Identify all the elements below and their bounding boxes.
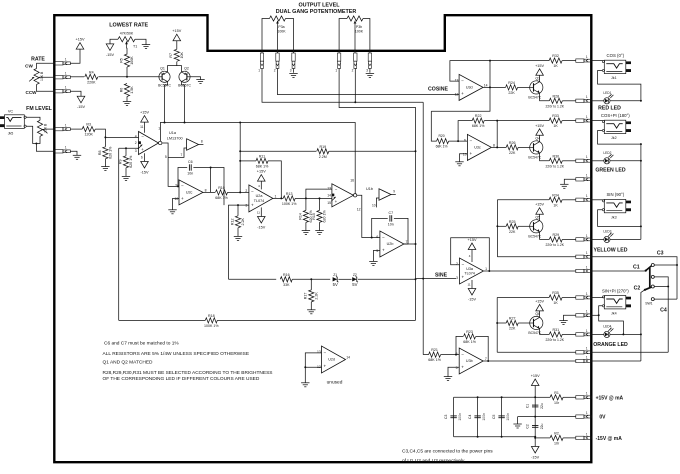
connector COS out bbox=[576, 55, 592, 62]
wire R9 bottom to ground bbox=[125, 168, 127, 177]
connector SIN out bbox=[576, 194, 592, 201]
svg-text:FM LEVEL: FM LEVEL bbox=[26, 106, 52, 112]
wire C6 right to output bbox=[193, 168, 210, 193]
svg-text:10r: 10r bbox=[554, 401, 560, 405]
op-amp U3a TL074 bbox=[456, 258, 487, 284]
resistor R26 22K bbox=[506, 141, 518, 155]
svg-text:+: + bbox=[461, 91, 464, 96]
wire P3b left to conn 4 bbox=[339, 19, 347, 54]
svg-text:−: − bbox=[251, 189, 254, 194]
resistor R4 220K bbox=[85, 70, 98, 84]
wire R21 to pin6 node bbox=[441, 354, 460, 356]
junction U3c output bbox=[496, 146, 498, 148]
svg-text:1: 1 bbox=[586, 155, 588, 159]
svg-text:R15: R15 bbox=[312, 213, 316, 220]
svg-text:SIN+PI (270°): SIN+PI (270°) bbox=[602, 288, 629, 293]
svg-text:2: 2 bbox=[274, 68, 276, 72]
resistor R29 220r-1.2K bbox=[549, 233, 562, 242]
wire U3b pin5 to ground bbox=[448, 367, 459, 376]
wire R18 line right bbox=[217, 319, 415, 321]
svg-text:1: 1 bbox=[258, 68, 260, 72]
resistor R17 2.2K bbox=[304, 290, 319, 302]
junction R19 right at sine bus bbox=[415, 150, 417, 152]
jack Jk4 SIN+PI (270deg) bbox=[602, 288, 631, 315]
wire R31 to connector bbox=[562, 333, 576, 335]
svg-text:TL074: TL074 bbox=[254, 199, 264, 203]
wire Q1 collector down bbox=[165, 82, 168, 123]
svg-text:+15V: +15V bbox=[535, 299, 544, 303]
svg-text:R7: R7 bbox=[169, 53, 173, 58]
junction R11 left bbox=[239, 160, 241, 162]
svg-text:Jk2: Jk2 bbox=[611, 136, 617, 140]
wire connector5 to ground bbox=[70, 151, 77, 155]
junction R22 left bbox=[457, 140, 459, 142]
wire R22 right to fb node bbox=[484, 120, 497, 122]
wire +15V to R1 bbox=[535, 396, 550, 398]
svg-text:CCW: CCW bbox=[26, 90, 38, 95]
resistor R1 10r bbox=[550, 391, 563, 405]
transistor Q1 BC557C bbox=[158, 67, 171, 88]
ground below R9 bbox=[122, 176, 130, 180]
svg-text:C6: C6 bbox=[188, 160, 193, 164]
junction LED4 line on C2 drop bbox=[640, 333, 642, 335]
svg-text:YELLOW LED: YELLOW LED bbox=[593, 247, 627, 253]
+15V supply arrow (U2a) bbox=[257, 170, 266, 182]
junction wiper line bbox=[354, 101, 356, 103]
svg-text:U3c: U3c bbox=[474, 145, 481, 149]
wire C7 feedback left bbox=[372, 218, 388, 237]
svg-text:LED3: LED3 bbox=[603, 230, 611, 234]
ground at U2c pin10 bbox=[168, 210, 176, 214]
wire U2a V- stub bbox=[260, 207, 262, 216]
wire U2b pin5 to ground bbox=[373, 251, 380, 262]
svg-text:-15V: -15V bbox=[257, 225, 265, 229]
resistor R31 220r-1.2K bbox=[549, 328, 562, 337]
wire R22 left leg bbox=[458, 121, 472, 142]
connector GREEN LED bbox=[576, 155, 592, 162]
wire U1a V- stub bbox=[144, 153, 146, 161]
resistor R9 620 1% bbox=[118, 155, 133, 168]
wire C3 outside bbox=[591, 257, 677, 299]
resistor R21 68K 1% bbox=[428, 348, 441, 362]
wire jack tip to P2 top bbox=[26, 117, 40, 120]
wire T1 left to -15V bbox=[110, 39, 118, 43]
svg-text:100K 1%: 100K 1% bbox=[204, 324, 219, 328]
wire 0V line bbox=[518, 416, 576, 418]
svg-text:Q2: Q2 bbox=[184, 67, 189, 71]
svg-text:U3b: U3b bbox=[466, 359, 473, 363]
wire R13 to divider to U1b bbox=[295, 197, 332, 199]
wire rail to U2a bus bbox=[239, 123, 241, 193]
zener diode Z2 5V bbox=[352, 273, 358, 287]
+15V supply arrow (Q6) bbox=[535, 299, 544, 311]
wire cos to R32 bbox=[490, 60, 549, 62]
connector RATE CCW (pin 1) bbox=[55, 86, 71, 93]
svg-text:1: 1 bbox=[65, 86, 67, 90]
wire R28 to connector bbox=[562, 100, 576, 102]
resistor R24 22K bbox=[506, 81, 518, 95]
connector C4 bbox=[576, 347, 592, 354]
wire R8 bottom to ground bbox=[104, 159, 106, 167]
svg-text:−: − bbox=[461, 79, 464, 84]
svg-text:VC: VC bbox=[8, 110, 14, 114]
svg-text:−: − bbox=[461, 352, 464, 357]
svg-text:11: 11 bbox=[140, 125, 144, 129]
wire U2a pin3 line bbox=[229, 205, 249, 279]
wire P3b conn5 wiper down bbox=[354, 68, 356, 102]
junction SW1 pole 1 bbox=[645, 270, 647, 272]
svg-text:R13: R13 bbox=[286, 192, 293, 196]
wire decoupling top rail bbox=[454, 396, 536, 398]
svg-text:14: 14 bbox=[484, 83, 488, 87]
svg-text:R22: R22 bbox=[475, 114, 482, 118]
wire P3a conn1 down bbox=[262, 68, 423, 102]
svg-text:R28: R28 bbox=[553, 94, 560, 98]
svg-text:R18: R18 bbox=[208, 314, 215, 318]
junction U2a output/R11 bbox=[280, 197, 282, 199]
svg-text:7: 7 bbox=[485, 357, 487, 361]
connector RED LED bbox=[576, 95, 592, 102]
wire Q3 emitter to R28 bbox=[540, 93, 550, 101]
svg-text:-15V: -15V bbox=[77, 105, 85, 109]
svg-text:220r to 1.2K: 220r to 1.2K bbox=[546, 338, 565, 342]
potentiometer P1 RATE 10K bbox=[29, 68, 44, 84]
svg-text:Jk5: Jk5 bbox=[8, 131, 14, 135]
svg-text:1: 1 bbox=[586, 411, 588, 415]
svg-text:U3a: U3a bbox=[466, 267, 474, 271]
svg-text:R4: R4 bbox=[89, 70, 94, 74]
junction U2c pin9 node bbox=[177, 185, 179, 187]
wire U2a V+ stub bbox=[260, 181, 262, 189]
svg-text:3: 3 bbox=[456, 276, 458, 280]
ground below U2d bbox=[301, 383, 309, 387]
junction Q2 collector on rail bbox=[184, 122, 186, 124]
wire R19 line right bbox=[329, 150, 416, 152]
connector U3b out bbox=[576, 355, 592, 362]
svg-text:620 1%: 620 1% bbox=[109, 146, 113, 159]
svg-text:1K: 1K bbox=[553, 203, 558, 207]
wire Q6 collector to +15V bbox=[539, 311, 541, 317]
resistor R6 1.5K bbox=[119, 84, 134, 97]
svg-text:SIN (90°): SIN (90°) bbox=[606, 192, 624, 197]
svg-text:LED4: LED4 bbox=[603, 325, 611, 329]
wire plus input line U1a bbox=[119, 147, 139, 149]
op-amp U3b bbox=[456, 348, 487, 374]
svg-text:R26: R26 bbox=[509, 141, 516, 145]
junction U3d output bbox=[489, 86, 491, 88]
wire connector3 to -15V bbox=[70, 91, 81, 96]
wire P3a left to conn 1 bbox=[262, 19, 270, 54]
resistor R30 220r-1.2K bbox=[549, 154, 562, 163]
wire R24 to Q3 base bbox=[518, 86, 530, 88]
svg-text:R21: R21 bbox=[431, 348, 438, 352]
wire U2a output to R13 bbox=[273, 197, 283, 199]
op-amp U3c bbox=[463, 134, 495, 160]
wire R5 to node bbox=[126, 67, 128, 77]
ground below R12 bbox=[234, 236, 242, 240]
junction bus bottom bbox=[239, 191, 241, 193]
op-amp U2c bbox=[175, 180, 207, 205]
junction LED2 bus bbox=[640, 160, 642, 162]
svg-text:U2c: U2c bbox=[186, 190, 193, 194]
wire Q2 base to ground bbox=[190, 77, 200, 80]
wire Q5 emitter to R29 bbox=[540, 232, 550, 239]
svg-text:+15V: +15V bbox=[531, 374, 540, 378]
junction -15V node bbox=[534, 437, 536, 439]
svg-text:8: 8 bbox=[493, 143, 495, 147]
wire Q4 emitter to R30 bbox=[540, 153, 550, 161]
wire Q2 collector down bbox=[182, 82, 185, 123]
resistor R15 620 1% bbox=[312, 210, 327, 223]
connector RATE wiper (pin 1) bbox=[55, 72, 71, 79]
svg-text:1: 1 bbox=[158, 127, 160, 131]
+15V supply arrow (Q4) bbox=[535, 124, 544, 136]
svg-text:13: 13 bbox=[455, 78, 459, 82]
svg-text:P3a: P3a bbox=[278, 25, 284, 29]
svg-text:+15V: +15V bbox=[140, 111, 149, 115]
+15V supply arrow (Q3) bbox=[535, 64, 544, 76]
wire U2c pin10 to ground bbox=[173, 199, 180, 210]
junction C6/output bbox=[210, 167, 212, 169]
svg-text:R5: R5 bbox=[119, 58, 123, 63]
junction jack4 sleeve on LED4 wire bbox=[622, 333, 624, 335]
junction wiper bus at sine wire bbox=[422, 278, 424, 280]
svg-text:6: 6 bbox=[456, 352, 458, 356]
wire U1a output down bbox=[162, 143, 179, 186]
wire LED1 to bus bbox=[610, 100, 641, 102]
wire throw1a to C3 bus bbox=[654, 264, 677, 266]
wire P1 top to connector 1 bbox=[37, 63, 55, 68]
svg-text:+15V: +15V bbox=[535, 203, 544, 207]
svg-text:220r to 1.2K: 220r to 1.2K bbox=[546, 164, 565, 168]
wire C4 outside bbox=[591, 351, 668, 353]
op-amp U1a (OTA) bbox=[135, 132, 162, 155]
svg-text:R16: R16 bbox=[283, 273, 290, 277]
capacitor C2 22u bbox=[526, 423, 544, 429]
wire R17 bottom to ground bbox=[310, 302, 312, 310]
svg-text:R24: R24 bbox=[508, 81, 515, 85]
zener diode Z1 5V bbox=[333, 273, 339, 287]
junction R27 left bbox=[496, 322, 498, 324]
wire U3c output bbox=[492, 146, 507, 148]
ground power bbox=[513, 424, 521, 428]
wire jack sleeve to P2 bottom junction bbox=[26, 126, 40, 143]
svg-text:14: 14 bbox=[346, 356, 350, 360]
wire sine node to U3a bbox=[416, 278, 457, 280]
svg-text:unused: unused bbox=[327, 380, 343, 386]
+15V supply arrow (U1a) bbox=[140, 111, 149, 123]
wire wiper bus to R21 bbox=[423, 354, 428, 356]
junction U3b output bbox=[487, 360, 489, 362]
junction R22 right bbox=[496, 120, 498, 122]
svg-text:220r to 1.2K: 220r to 1.2K bbox=[546, 243, 565, 247]
junction R19 line at bus bbox=[239, 150, 241, 152]
svg-text:Z2: Z2 bbox=[353, 273, 357, 277]
svg-text:22K: 22K bbox=[509, 230, 516, 234]
transistor Q4 BC547C bbox=[528, 136, 543, 159]
op-amp U3d bbox=[455, 74, 488, 100]
svg-text:RATE: RATE bbox=[31, 56, 45, 62]
svg-text:U1a: U1a bbox=[169, 131, 177, 135]
svg-text:R28,R29,R30,R31 MUST BE SELECT: R28,R29,R30,R31 MUST BE SELECTED ACCORDI… bbox=[103, 370, 273, 376]
svg-text:12: 12 bbox=[357, 208, 361, 212]
wire P3b conn4 down to sine bus bbox=[339, 68, 415, 151]
svg-text:4: 4 bbox=[135, 134, 137, 138]
svg-text:R3: R3 bbox=[86, 123, 91, 127]
svg-text:R20: R20 bbox=[438, 134, 444, 138]
svg-text:R19: R19 bbox=[320, 145, 327, 149]
capacitor C6 10n bbox=[187, 160, 193, 176]
svg-text:R11: R11 bbox=[259, 155, 265, 159]
svg-text:-15V: -15V bbox=[531, 455, 539, 459]
wire U1a V+ stub bbox=[144, 122, 146, 133]
svg-text:R25: R25 bbox=[509, 220, 516, 224]
-15V supply arrow (U1a) bbox=[140, 162, 148, 175]
wire LED3 to bus bbox=[610, 238, 641, 240]
junction U3a output fb bbox=[488, 270, 490, 272]
wire R16 to R17 node bbox=[292, 278, 330, 280]
resistor R10 68K 1% bbox=[215, 186, 228, 200]
ground below R17 bbox=[307, 310, 315, 314]
svg-text:3: 3 bbox=[366, 68, 368, 72]
wire U3d feedback bbox=[431, 61, 490, 112]
junction U2b out on sine bus bbox=[415, 243, 417, 245]
svg-text:OUTPUT LEVEL: OUTPUT LEVEL bbox=[298, 3, 340, 9]
junction U2d tie bbox=[304, 366, 306, 368]
svg-text:5: 5 bbox=[165, 155, 167, 159]
svg-text:+: + bbox=[324, 364, 327, 369]
svg-text:C4: C4 bbox=[660, 308, 667, 314]
svg-text:10K B: 10K B bbox=[43, 123, 47, 133]
wire R8 top stub bbox=[104, 137, 106, 146]
wire C3cap branch bbox=[453, 397, 455, 437]
junction R8 top bbox=[104, 136, 106, 138]
wire R17 stub bbox=[310, 279, 312, 290]
wire jack1 sleeve loop bbox=[598, 71, 641, 101]
svg-text:16: 16 bbox=[350, 179, 354, 183]
wire throw2a to C4 vertical bbox=[654, 286, 668, 288]
svg-text:+15V: +15V bbox=[172, 29, 181, 33]
resistor R8 620 1% bbox=[98, 146, 113, 159]
connector -15V bbox=[576, 432, 592, 439]
svg-text:33K: 33K bbox=[283, 283, 290, 287]
wire U2b output to sine bus bbox=[404, 243, 416, 245]
wire U3a feedback bbox=[451, 238, 490, 271]
wire U2d tie to ground bbox=[304, 367, 306, 383]
svg-text:C3,C4,C5 are connected to the: C3,C4,C5 are connected to the power pins bbox=[402, 449, 493, 455]
ground below R8 bbox=[101, 167, 109, 171]
svg-text:2.2K: 2.2K bbox=[241, 218, 245, 226]
wire conn to jack2 bbox=[591, 120, 603, 122]
svg-text:1: 1 bbox=[335, 68, 337, 72]
junction R12 top bbox=[237, 204, 239, 206]
wire U3c pin10 to ground bbox=[460, 154, 468, 162]
resistor R25 22K bbox=[506, 220, 518, 234]
wire R3 line from connector 4 bbox=[70, 128, 82, 130]
ground below P3a conn3 bbox=[289, 73, 297, 77]
ground below R14 bbox=[302, 231, 310, 235]
wire R29 to connector bbox=[562, 238, 576, 240]
wire P3a conn2 (cosine line) bbox=[278, 68, 460, 94]
svg-text:C5: C5 bbox=[492, 415, 496, 419]
svg-text:10n: 10n bbox=[187, 172, 193, 176]
svg-text:1.5K: 1.5K bbox=[130, 86, 134, 94]
transistor Q6 BC547C bbox=[528, 312, 543, 335]
wire R12 top stub bbox=[237, 205, 239, 216]
svg-text:22K: 22K bbox=[508, 91, 515, 95]
svg-text:10: 10 bbox=[463, 152, 467, 156]
svg-text:22u: 22u bbox=[540, 423, 544, 429]
connector P3a-2 bbox=[274, 53, 279, 72]
wire P3a wiper to conn 2 bbox=[277, 28, 279, 54]
wire decoupling bottom rail bbox=[454, 436, 536, 438]
junction throw2a C4 bbox=[667, 286, 669, 288]
wire feedback bus x118.7 down to R18 line bbox=[118, 148, 120, 320]
wire -15V to R2 bbox=[535, 437, 550, 439]
wire C2 pole drop to LED4 line bbox=[641, 290, 645, 361]
svg-text:R17: R17 bbox=[304, 293, 308, 300]
svg-text:C1: C1 bbox=[633, 264, 640, 270]
connector P3b-3 bbox=[366, 53, 371, 72]
svg-text:1: 1 bbox=[586, 432, 588, 436]
svg-text:100K: 100K bbox=[355, 30, 364, 34]
svg-text:LED2: LED2 bbox=[603, 151, 611, 155]
junction P2 bottom bbox=[35, 143, 37, 145]
resistor R19 2.2M bbox=[317, 145, 329, 159]
ground panel 1 bbox=[560, 184, 568, 188]
wire jack3 sleeve loop bbox=[598, 210, 641, 227]
svg-text:100n: 100n bbox=[482, 413, 486, 421]
wire R23 left leg bbox=[456, 336, 463, 354]
capacitor C4 100n bbox=[468, 413, 486, 421]
svg-text:1: 1 bbox=[586, 355, 588, 359]
wire LED4 to sleeve wire bbox=[610, 333, 641, 335]
resistor R2 10r bbox=[550, 432, 563, 446]
svg-text:-15V: -15V bbox=[106, 53, 114, 57]
resistor R35 1K bbox=[549, 291, 562, 305]
svg-text:1K: 1K bbox=[553, 64, 558, 68]
svg-text:22K: 22K bbox=[509, 151, 516, 155]
junction R25 left bbox=[496, 225, 498, 227]
svg-text:−: − bbox=[469, 139, 472, 144]
svg-text:GREEN LED: GREEN LED bbox=[595, 167, 626, 173]
ground panel 2 bbox=[559, 321, 567, 325]
svg-text:1: 1 bbox=[586, 265, 588, 269]
+15V supply arrow (power) bbox=[531, 379, 539, 386]
svg-text:C2: C2 bbox=[526, 424, 530, 428]
junction C3 bus bbox=[676, 264, 678, 266]
svg-text:15: 15 bbox=[327, 201, 331, 205]
+15V supply arrow (U3a) bbox=[468, 238, 477, 250]
svg-text:1: 1 bbox=[65, 146, 67, 150]
wire U3b output line bbox=[484, 360, 576, 362]
svg-text:U2d: U2d bbox=[328, 358, 335, 362]
wire wiper bus down to U3a input and R21 bbox=[422, 102, 424, 354]
wire buffer U1b input pin10 bbox=[376, 198, 379, 207]
wire R6 bottom to ground bbox=[126, 97, 128, 102]
LED LED4 ORANGE bbox=[603, 325, 613, 338]
junction C4 bottom bbox=[477, 436, 479, 438]
svg-text:+: + bbox=[469, 151, 472, 156]
op-amp U1b (OTA) bbox=[327, 184, 357, 207]
capacitor C7 10n bbox=[388, 211, 394, 227]
-15V supply arrow (U2a) bbox=[257, 217, 265, 230]
svg-text:R8: R8 bbox=[98, 150, 102, 155]
svg-text:C1: C1 bbox=[526, 404, 530, 408]
svg-text:68K 1%: 68K 1% bbox=[472, 124, 485, 128]
switch SW1 section 2 (moving contact) bbox=[645, 285, 654, 301]
svg-text:+: + bbox=[382, 248, 385, 253]
